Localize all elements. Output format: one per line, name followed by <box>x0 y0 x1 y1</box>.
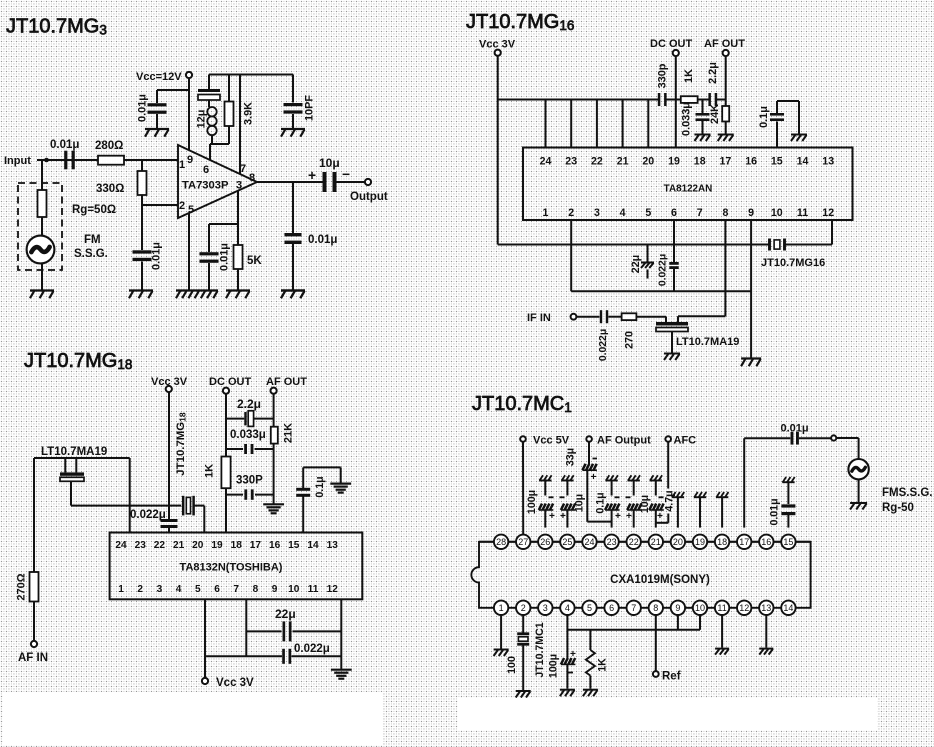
svg-text:7: 7 <box>233 584 239 595</box>
svg-text:0.1μ: 0.1μ <box>595 492 607 513</box>
svg-text:2: 2 <box>568 207 574 219</box>
svg-text:6: 6 <box>214 584 220 595</box>
svg-text:Vcc=12V: Vcc=12V <box>136 71 182 83</box>
svg-text:100: 100 <box>506 656 518 674</box>
svg-text:6: 6 <box>671 207 677 219</box>
svg-text:0.1μ: 0.1μ <box>758 106 770 128</box>
svg-text:12: 12 <box>739 603 749 613</box>
svg-text:3: 3 <box>157 584 163 595</box>
svg-text:6: 6 <box>203 164 209 176</box>
svg-text:22μ: 22μ <box>275 607 296 621</box>
svg-text:0.01μ: 0.01μ <box>219 243 231 271</box>
svg-text:25: 25 <box>562 537 572 547</box>
svg-text:20: 20 <box>642 156 654 168</box>
svg-text:330P: 330P <box>236 475 263 487</box>
svg-text:7: 7 <box>631 603 636 613</box>
svg-text:330Ω: 330Ω <box>96 183 124 195</box>
svg-text:24: 24 <box>584 537 594 547</box>
svg-text:0.01μ: 0.01μ <box>137 94 149 122</box>
svg-text:0.01μ: 0.01μ <box>151 242 163 270</box>
svg-text:JT10.7MG18: JT10.7MG18 <box>24 350 132 372</box>
svg-text:DC OUT: DC OUT <box>650 38 692 50</box>
svg-text:−: − <box>342 167 350 182</box>
svg-text:26: 26 <box>540 537 550 547</box>
svg-text:8: 8 <box>722 207 728 219</box>
svg-text:22: 22 <box>591 156 603 168</box>
svg-text:15: 15 <box>288 540 300 551</box>
svg-text:24: 24 <box>540 156 552 168</box>
svg-text:5: 5 <box>645 207 651 219</box>
svg-text:11: 11 <box>717 603 726 613</box>
svg-text:JT10.7MC1: JT10.7MC1 <box>472 393 572 415</box>
svg-text:23: 23 <box>607 537 617 547</box>
svg-text:+: + <box>615 511 621 522</box>
svg-text:100μ: 100μ <box>548 654 560 678</box>
svg-text:100μ: 100μ <box>526 490 538 514</box>
svg-text:2.2μ: 2.2μ <box>707 62 719 84</box>
svg-text:24K: 24K <box>709 104 721 124</box>
svg-text:DC OUT: DC OUT <box>209 376 251 388</box>
svg-text:23: 23 <box>135 540 147 551</box>
svg-text:3: 3 <box>543 603 548 613</box>
svg-text:0.022μ: 0.022μ <box>658 254 669 286</box>
svg-text:21: 21 <box>173 540 185 551</box>
svg-text:270Ω: 270Ω <box>16 573 28 600</box>
svg-text:TA7303P: TA7303P <box>182 180 229 192</box>
svg-text:1K: 1K <box>683 69 695 83</box>
svg-text:JT10.7MG16: JT10.7MG16 <box>761 257 825 269</box>
svg-text:9: 9 <box>272 584 278 595</box>
svg-text:5: 5 <box>195 584 201 595</box>
svg-text:22μ: 22μ <box>630 255 642 273</box>
svg-text:10μ: 10μ <box>573 494 585 512</box>
svg-text:3: 3 <box>236 180 242 192</box>
svg-text:S.S.G.: S.S.G. <box>74 248 108 260</box>
svg-text:16: 16 <box>745 156 757 168</box>
svg-text:0.033μ: 0.033μ <box>230 429 266 441</box>
svg-text:11: 11 <box>308 584 319 595</box>
svg-text:1: 1 <box>179 159 185 171</box>
svg-text:+: + <box>308 168 316 183</box>
svg-text:16: 16 <box>761 537 771 547</box>
svg-text:14: 14 <box>797 156 809 168</box>
svg-text:JT10.7MG3: JT10.7MG3 <box>6 16 107 38</box>
svg-text:270: 270 <box>624 331 636 349</box>
svg-text:20: 20 <box>673 537 683 547</box>
svg-text:27: 27 <box>518 537 528 547</box>
svg-text:21: 21 <box>617 156 629 168</box>
svg-text:+: + <box>657 511 663 522</box>
svg-text:280Ω: 280Ω <box>95 140 123 152</box>
svg-text:9: 9 <box>675 603 680 613</box>
svg-text:19: 19 <box>695 537 705 547</box>
svg-text:JT10.7MC1: JT10.7MC1 <box>534 622 546 677</box>
svg-text:CXA1019M(SONY): CXA1019M(SONY) <box>610 574 710 586</box>
svg-text:21: 21 <box>651 537 661 547</box>
svg-text:AFC: AFC <box>674 435 697 447</box>
svg-text:12μ: 12μ <box>196 110 208 129</box>
svg-text:2: 2 <box>521 603 526 613</box>
svg-text:4: 4 <box>176 584 182 595</box>
svg-text:24: 24 <box>115 540 127 551</box>
svg-text:Input: Input <box>4 155 31 167</box>
svg-text:Vcc 3V: Vcc 3V <box>216 677 254 689</box>
svg-text:18: 18 <box>717 537 727 547</box>
svg-text:4: 4 <box>565 603 570 613</box>
svg-text:22: 22 <box>629 537 639 547</box>
svg-text:17: 17 <box>720 156 732 168</box>
svg-text:4: 4 <box>620 207 626 219</box>
svg-text:2: 2 <box>179 200 185 212</box>
svg-text:10μ: 10μ <box>639 495 651 513</box>
svg-text:10: 10 <box>695 603 705 613</box>
svg-text:10μ: 10μ <box>319 156 340 170</box>
svg-text:330p: 330p <box>657 63 669 88</box>
svg-text:AF Output: AF Output <box>597 435 651 447</box>
svg-text:Output: Output <box>350 191 388 203</box>
svg-text:23: 23 <box>565 156 577 168</box>
svg-text:9: 9 <box>748 207 754 219</box>
svg-text:8: 8 <box>253 584 259 595</box>
svg-text:Vcc 5V: Vcc 5V <box>533 435 570 447</box>
svg-text:0.01μ: 0.01μ <box>781 423 809 435</box>
svg-text:12: 12 <box>822 207 834 219</box>
svg-text:FMS.S.G.: FMS.S.G. <box>882 487 932 499</box>
svg-text:12: 12 <box>327 584 339 595</box>
svg-text:7: 7 <box>240 163 246 175</box>
svg-text:AF OUT: AF OUT <box>704 38 745 50</box>
svg-text:22: 22 <box>154 540 166 551</box>
svg-text:JT10.7MG18: JT10.7MG18 <box>175 412 188 476</box>
svg-text:+: + <box>560 511 566 522</box>
svg-text:0.01μ: 0.01μ <box>769 498 781 525</box>
svg-text:28: 28 <box>496 537 506 547</box>
svg-text:Rg-50: Rg-50 <box>882 502 914 514</box>
svg-text:14: 14 <box>307 540 319 551</box>
svg-text:Ref: Ref <box>662 671 681 683</box>
svg-text:0.01μ: 0.01μ <box>50 139 79 151</box>
svg-text:14: 14 <box>783 603 793 613</box>
svg-text:1K: 1K <box>204 464 216 478</box>
svg-text:13: 13 <box>822 156 834 168</box>
svg-text:8: 8 <box>249 172 255 184</box>
svg-text:10: 10 <box>771 207 783 219</box>
svg-text:0.022μ: 0.022μ <box>598 329 609 361</box>
svg-text:0.022μ: 0.022μ <box>294 643 330 655</box>
svg-text:13: 13 <box>327 540 339 551</box>
svg-text:19: 19 <box>668 156 680 168</box>
svg-text:17: 17 <box>250 540 262 551</box>
svg-text:TA8132N(TOSHIBA): TA8132N(TOSHIBA) <box>180 562 283 574</box>
svg-text:0.1μ: 0.1μ <box>314 476 326 497</box>
svg-text:1K: 1K <box>597 658 609 672</box>
svg-text:LT10.7MA19: LT10.7MA19 <box>676 336 739 348</box>
svg-text:+: + <box>591 472 597 483</box>
svg-text:Rg=50Ω: Rg=50Ω <box>72 204 116 216</box>
svg-text:10: 10 <box>288 584 300 595</box>
svg-text:21K: 21K <box>283 423 295 443</box>
svg-text:1: 1 <box>499 603 504 613</box>
svg-text:+: + <box>549 511 555 522</box>
svg-text:2: 2 <box>137 584 143 595</box>
svg-text:16: 16 <box>269 540 281 551</box>
svg-text:0.01μ: 0.01μ <box>308 234 337 246</box>
svg-text:7: 7 <box>697 207 703 219</box>
svg-text:+: + <box>626 511 632 522</box>
svg-text:JT10.7MG16: JT10.7MG16 <box>466 11 574 33</box>
svg-text:LT10.7MA19: LT10.7MA19 <box>41 446 107 458</box>
svg-text:0.033μ: 0.033μ <box>681 102 693 136</box>
svg-text:15: 15 <box>783 537 793 547</box>
svg-text:3: 3 <box>594 207 600 219</box>
svg-text:TA8122AN: TA8122AN <box>664 184 713 195</box>
svg-text:17: 17 <box>739 537 749 547</box>
svg-text:8: 8 <box>653 603 658 613</box>
svg-text:18: 18 <box>231 540 243 551</box>
svg-text:33μ: 33μ <box>565 448 577 466</box>
svg-text:1: 1 <box>543 207 549 219</box>
svg-text:0.022μ: 0.022μ <box>130 509 166 521</box>
svg-text:FM: FM <box>84 234 101 246</box>
svg-text:13: 13 <box>761 603 771 613</box>
svg-text:19: 19 <box>211 540 223 551</box>
svg-text:AF IN: AF IN <box>18 652 48 664</box>
svg-text:9: 9 <box>187 154 193 166</box>
svg-text:5: 5 <box>587 603 592 613</box>
svg-text:18: 18 <box>694 156 706 168</box>
svg-text:20: 20 <box>192 540 204 551</box>
svg-text:6: 6 <box>609 603 614 613</box>
svg-text:10PF: 10PF <box>304 95 316 121</box>
svg-text:1: 1 <box>118 584 124 595</box>
svg-text:5K: 5K <box>247 255 262 267</box>
svg-text:11: 11 <box>797 207 808 219</box>
svg-text:3.9K: 3.9K <box>243 102 255 125</box>
svg-text:AF OUT: AF OUT <box>266 376 307 388</box>
svg-text:2.2μ: 2.2μ <box>237 397 261 411</box>
svg-text:IF IN: IF IN <box>527 312 551 324</box>
svg-text:15: 15 <box>771 156 783 168</box>
